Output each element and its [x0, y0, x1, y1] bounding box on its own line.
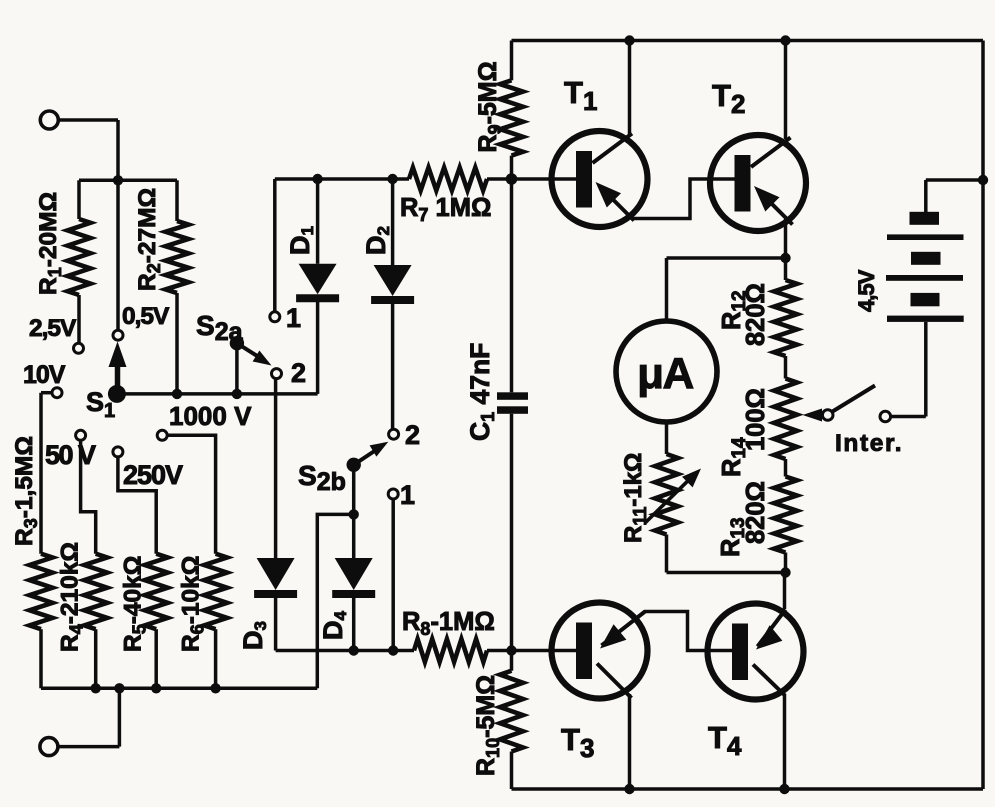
svg-text:R6-10kΩ: R6-10kΩ — [178, 556, 208, 652]
svg-text:R10-5MΩ: R10-5MΩ — [472, 675, 503, 776]
svg-text:μA: μA — [637, 349, 693, 398]
svg-text:R5-40kΩ: R5-40kΩ — [120, 556, 150, 652]
svg-text:2: 2 — [405, 420, 420, 450]
svg-text:0,5V: 0,5V — [122, 303, 170, 330]
svg-text:D2: D2 — [361, 226, 393, 255]
svg-text:D1: D1 — [285, 226, 317, 255]
svg-text:R7 1MΩ: R7 1MΩ — [400, 194, 491, 225]
svg-text:Inter.: Inter. — [835, 430, 903, 457]
svg-text:D3: D3 — [238, 621, 270, 650]
svg-text:R9-5MΩ: R9-5MΩ — [474, 61, 505, 152]
svg-text:R11-1kΩ: R11-1kΩ — [620, 453, 650, 543]
svg-text:50 V: 50 V — [45, 440, 96, 470]
svg-text:S2b: S2b — [298, 460, 346, 496]
svg-text:4,5V: 4,5V — [854, 269, 879, 312]
svg-text:250V: 250V — [123, 460, 183, 490]
svg-text:S2a: S2a — [196, 310, 244, 346]
svg-text:2,5V: 2,5V — [29, 315, 77, 342]
svg-text:D4: D4 — [318, 611, 350, 641]
svg-text:820Ω: 820Ω — [742, 481, 770, 544]
svg-text:100Ω: 100Ω — [742, 388, 770, 451]
svg-text:R1-20MΩ: R1-20MΩ — [35, 192, 65, 295]
svg-text:10V: 10V — [23, 361, 66, 389]
svg-text:T3: T3 — [561, 722, 594, 763]
svg-text:820Ω: 820Ω — [742, 283, 770, 346]
svg-text:T1: T1 — [564, 75, 597, 116]
svg-text:R8-1MΩ: R8-1MΩ — [402, 608, 495, 639]
svg-text:2: 2 — [291, 358, 306, 388]
svg-text:R3-1,5MΩ: R3-1,5MΩ — [11, 436, 41, 546]
svg-text:T2: T2 — [712, 78, 745, 119]
svg-text:C1 47nF: C1 47nF — [465, 343, 498, 441]
svg-text:T4: T4 — [708, 720, 742, 761]
svg-text:1: 1 — [400, 480, 415, 510]
svg-text:1000 V: 1000 V — [169, 401, 252, 431]
svg-text:R2-27MΩ: R2-27MΩ — [134, 188, 164, 291]
svg-text:R4-210kΩ: R4-210kΩ — [57, 542, 87, 652]
svg-text:1: 1 — [286, 303, 301, 333]
